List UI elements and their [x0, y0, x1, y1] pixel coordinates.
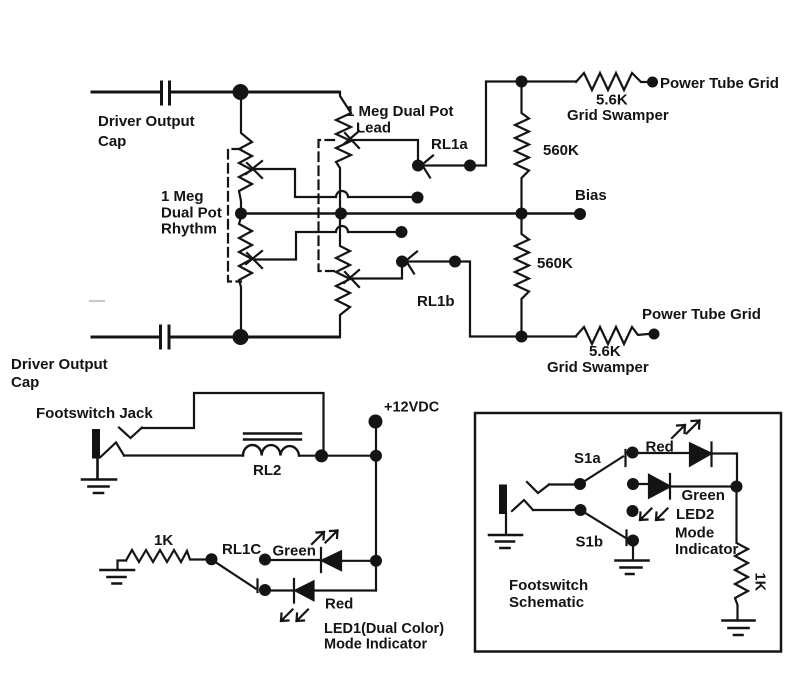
- resistor 560K (upper): [515, 82, 529, 214]
- node: RL1b common: [449, 256, 461, 268]
- LED2 red section: wire, triangle, cathode bar: [633, 452, 691, 454]
- wiper arrow (lead pot, lower): [344, 270, 359, 287]
- LED1 green section: wire, cathode bar, triangle: [265, 548, 321, 572]
- relay coil RL2: [243, 445, 299, 456]
- wire: coil to +12V line: [299, 455, 376, 457]
- node: bias/560K junction: [516, 208, 528, 220]
- LED light arrows (green, up-right): [312, 531, 338, 545]
- LED1 red section: wire, cathode bar, triangle: [265, 579, 294, 603]
- svg-text:Green: Green: [682, 487, 725, 504]
- svg-text:RL1C: RL1C: [222, 541, 261, 558]
- potentiometer body: 1 Meg Dual Pot Rhythm (left gang): [239, 92, 252, 337]
- potentiometer body: 1 Meg Dual Pot Lead (right gang): [336, 92, 351, 337]
- svg-text:Dual Pot: Dual Pot: [161, 205, 222, 222]
- svg-text:Mode Indicator: Mode Indicator: [324, 637, 427, 653]
- node: junction 560K bottom: [516, 331, 528, 343]
- svg-text:Grid Swamper: Grid Swamper: [567, 107, 669, 124]
- node: Bias terminal: [574, 208, 586, 220]
- node: S1a output: [627, 447, 639, 459]
- wire: tip contact to S1a common: [549, 483, 575, 485]
- svg-text:Lead: Lead: [356, 120, 391, 137]
- svg-text:Mode: Mode: [675, 525, 714, 542]
- svg-text:Green: Green: [273, 543, 316, 560]
- node: Power Tube Grid terminal (top): [647, 77, 658, 88]
- LED2 green section: wire, triangle, cathode bar: [633, 483, 649, 485]
- svg-text:Power Tube Grid: Power Tube Grid: [660, 75, 779, 92]
- wire: RL1b common down to bottom line: [408, 262, 576, 337]
- wire: rhythm lower wiper to end node (hops over lead pot): [255, 226, 397, 260]
- ground: 1K resistor (main): [118, 561, 127, 570]
- svg-text:RL2: RL2: [253, 462, 281, 479]
- svg-text:Bias: Bias: [575, 187, 607, 204]
- resistor 1K (LED feed): [126, 550, 207, 562]
- resistor 1K (schematic): [735, 487, 748, 620]
- wire: rhythm upper wiper to end node (hops over lead pot): [255, 169, 413, 197]
- node: LED2 indicator dot: [627, 505, 639, 517]
- footswitch jack sleeve (schematic): [499, 485, 507, 515]
- svg-text:Footswitch: Footswitch: [509, 577, 588, 594]
- relay contact RL1a arrow: [421, 156, 433, 178]
- svg-text:1 Meg: 1 Meg: [161, 188, 204, 205]
- svg-text:LED2: LED2: [676, 506, 714, 523]
- wiper arrow (rhythm pot, lower): [246, 251, 262, 268]
- node: RL1a switched terminal: [412, 160, 424, 172]
- wire: jack ring to relay coil: [124, 454, 243, 456]
- svg-text:Cap: Cap: [98, 133, 126, 150]
- ground: S1b: [632, 541, 634, 560]
- node: Power Tube Grid terminal (bottom): [649, 329, 660, 340]
- node: top junction at rhythm pot: [233, 84, 249, 100]
- wire: driver output bottom line: [92, 336, 339, 339]
- jack tip contact (schematic): [527, 482, 549, 493]
- wire: bias line: [241, 212, 580, 214]
- node: RL1b switched terminal: [396, 256, 408, 268]
- resistor 5.6K (bottom grid swamper): [576, 327, 648, 344]
- wiper arrow (rhythm pot, upper): [246, 161, 262, 178]
- node: green LED anode (schematic): [627, 478, 639, 490]
- svg-text:Footswitch Jack: Footswitch Jack: [36, 405, 153, 422]
- dashed outline: lead pot gang: [319, 140, 335, 271]
- resistor 560K (lower): [515, 214, 529, 337]
- LED light arrows (red, down-left): [281, 610, 308, 622]
- jack ring contact (lower): [100, 443, 124, 458]
- svg-text:S1b: S1b: [576, 534, 604, 551]
- footswitch jack sleeve: [92, 429, 100, 459]
- svg-text:Indicator: Indicator: [675, 541, 739, 558]
- switch S1b (diagonal + tick): [581, 510, 627, 545]
- ground: 1K (schematic): [723, 621, 755, 636]
- LED light arrows (red schematic, up-right): [672, 421, 700, 439]
- svg-text:560K: 560K: [537, 255, 573, 272]
- resistor 5.6K (top grid swamper): [576, 73, 647, 90]
- node: junction green/red/1K (schematic): [731, 481, 743, 493]
- wire: RL1a common up to top node: [424, 82, 576, 166]
- node: RL1C common: [206, 553, 218, 565]
- svg-text:LED1(Dual Color): LED1(Dual Color): [324, 621, 444, 637]
- jack ring contact (schematic): [512, 500, 533, 511]
- node: RL1a common: [464, 160, 476, 172]
- wiper arrow (lead pot, upper): [344, 131, 359, 148]
- svg-text:Cap: Cap: [11, 374, 39, 391]
- svg-text:Schematic: Schematic: [509, 594, 584, 611]
- node: junction loop/coil: [315, 449, 328, 462]
- node: red LED anode terminal (main): [259, 584, 271, 596]
- LED light arrows (LED2, down-left): [640, 509, 668, 521]
- svg-text:+12VDC: +12VDC: [384, 400, 440, 416]
- svg-text:Red: Red: [646, 439, 674, 456]
- svg-text:Driver Output: Driver Output: [11, 356, 108, 373]
- wire: jack tip loop over relay to coil node: [142, 393, 324, 450]
- svg-text:560K: 560K: [543, 142, 579, 159]
- relay contact RL1C (diagonal + tick): [212, 560, 258, 593]
- capacitor C-bottom (Driver Output Cap): [161, 326, 170, 348]
- svg-text:1K: 1K: [154, 532, 173, 549]
- power terminal +12VDC and feed line down: [369, 415, 383, 429]
- relay RL2 core bars: [244, 434, 301, 440]
- jack tip contact (upper): [119, 428, 142, 439]
- node: junction 560K top: [516, 76, 528, 88]
- node: junction +12V/green LED: [370, 555, 382, 567]
- stray mark: [90, 300, 104, 302]
- node: lead pot center junction: [335, 208, 347, 220]
- node: rhythm pot center junction: [235, 208, 247, 220]
- svg-text:Power Tube Grid: Power Tube Grid: [642, 306, 761, 323]
- svg-text:1 Meg Dual Pot: 1 Meg Dual Pot: [346, 103, 454, 120]
- svg-text:Grid Swamper: Grid Swamper: [547, 359, 649, 376]
- wire: ring contact to S1b common: [533, 509, 576, 511]
- node: S1b output: [627, 535, 639, 547]
- svg-text:RL1a: RL1a: [431, 136, 468, 153]
- dashed outline: rhythm pot gang: [228, 149, 241, 282]
- ground: footswitch jack: [82, 459, 116, 494]
- ground: jack (schematic): [505, 514, 507, 534]
- svg-text:5.6K: 5.6K: [596, 92, 628, 109]
- svg-text:Rhythm: Rhythm: [161, 221, 217, 238]
- svg-text:5.6K: 5.6K: [589, 343, 621, 360]
- wire: driver output top line: [92, 91, 339, 94]
- node: rhythm upper wiper terminal: [412, 192, 424, 204]
- svg-text:Red: Red: [325, 596, 353, 613]
- node: green LED anode terminal (main): [259, 554, 271, 566]
- node: rhythm lower wiper terminal: [396, 226, 408, 238]
- node: bottom junction at rhythm pot: [233, 329, 249, 345]
- svg-text:1K: 1K: [752, 573, 768, 592]
- node: S1a common: [574, 478, 586, 490]
- capacitor C-top (Driver Output Cap): [162, 82, 170, 104]
- switch S1a (diagonal + tick): [580, 450, 626, 484]
- wire: lead lower wiper up to RL1b node: [353, 266, 402, 279]
- relay contact RL1b arrow: [405, 252, 417, 274]
- svg-text:S1a: S1a: [574, 450, 601, 467]
- wire: lead upper wiper down to RL1a node: [353, 140, 418, 161]
- svg-text:RL1b: RL1b: [417, 293, 455, 310]
- node: junction at +12V line: [370, 450, 382, 462]
- node: S1b common: [575, 504, 587, 516]
- box: footswitch schematic frame: [475, 413, 781, 652]
- svg-text:Driver Output: Driver Output: [98, 113, 195, 130]
